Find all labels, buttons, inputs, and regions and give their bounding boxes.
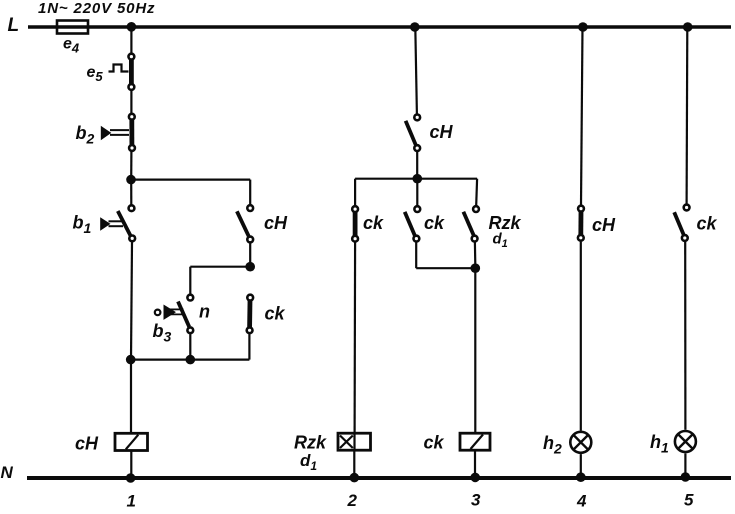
- svg-text:cH: cH: [75, 434, 99, 454]
- svg-text:L: L: [8, 15, 20, 36]
- svg-text:1: 1: [127, 492, 136, 511]
- svg-text:cH: cH: [430, 122, 454, 142]
- svg-text:N: N: [1, 463, 14, 482]
- svg-text:d1: d1: [493, 231, 508, 251]
- svg-text:ck: ck: [265, 304, 286, 324]
- svg-text:ck: ck: [697, 214, 718, 234]
- svg-text:e5: e5: [87, 64, 104, 84]
- svg-text:4: 4: [576, 492, 587, 511]
- svg-text:ck: ck: [363, 213, 384, 233]
- svg-text:h1: h1: [650, 432, 669, 456]
- svg-text:n: n: [199, 302, 210, 322]
- svg-text:h2: h2: [543, 433, 562, 457]
- svg-text:e4: e4: [63, 36, 80, 56]
- svg-text:b2: b2: [76, 123, 95, 147]
- svg-text:ck: ck: [424, 433, 445, 453]
- svg-text:cH: cH: [592, 215, 616, 235]
- svg-text:d1: d1: [300, 451, 317, 473]
- svg-text:5: 5: [684, 491, 694, 510]
- svg-text:b1: b1: [73, 213, 92, 237]
- svg-text:b3: b3: [153, 321, 172, 345]
- svg-text:2: 2: [347, 491, 358, 510]
- svg-text:cH: cH: [264, 213, 288, 233]
- svg-text:ck: ck: [424, 213, 445, 233]
- svg-text:1N~ 220V 50Hz: 1N~ 220V 50Hz: [38, 0, 155, 17]
- svg-text:3: 3: [471, 491, 481, 510]
- svg-text:Rzk: Rzk: [294, 433, 327, 453]
